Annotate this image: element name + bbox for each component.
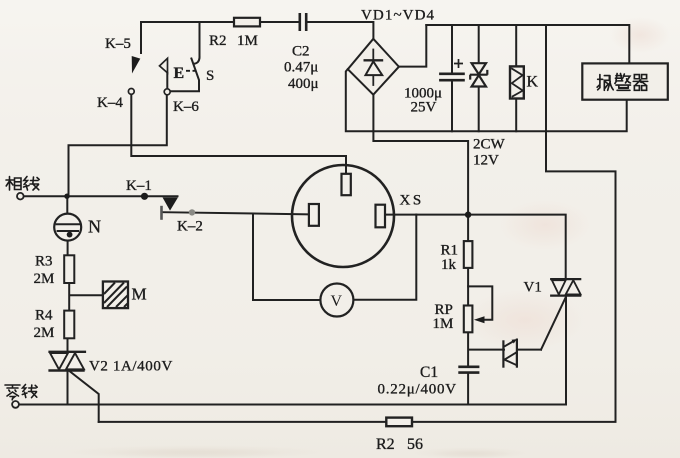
svg-text:N: N — [88, 217, 101, 237]
svg-text:2M: 2M — [34, 325, 55, 341]
svg-text:VD1~VD4: VD1~VD4 — [361, 8, 435, 24]
svg-text:K–4: K–4 — [97, 95, 123, 111]
svg-text:R2: R2 — [209, 33, 227, 49]
svg-text:K–5: K–5 — [105, 36, 131, 52]
svg-text:K–6: K–6 — [173, 99, 199, 115]
svg-text:V: V — [331, 293, 343, 310]
svg-text:V2 1A/400V: V2 1A/400V — [89, 359, 173, 375]
svg-text:R4: R4 — [35, 308, 53, 324]
svg-text:K–1: K–1 — [126, 178, 152, 194]
svg-text:56: 56 — [407, 436, 423, 453]
svg-text:25V: 25V — [411, 100, 437, 116]
svg-text:0.47μ: 0.47μ — [284, 60, 318, 76]
svg-text:K–2: K–2 — [177, 219, 203, 235]
svg-text:0.22μ/400V: 0.22μ/400V — [378, 382, 457, 398]
svg-text:K: K — [527, 74, 539, 91]
svg-text:2M: 2M — [34, 271, 55, 287]
svg-text:V1: V1 — [524, 280, 542, 296]
svg-text:M: M — [132, 285, 147, 304]
svg-text:C1: C1 — [420, 364, 438, 381]
svg-text:1M: 1M — [433, 316, 454, 332]
svg-text:400μ: 400μ — [288, 76, 319, 92]
svg-text:12V: 12V — [473, 153, 499, 169]
svg-text:R2: R2 — [376, 436, 395, 453]
svg-text:R3: R3 — [35, 254, 53, 270]
svg-text:C2: C2 — [292, 44, 310, 60]
svg-text:1k: 1k — [441, 257, 457, 273]
svg-text:2CW: 2CW — [473, 137, 506, 153]
svg-text:S: S — [206, 68, 214, 84]
svg-text:E: E — [174, 65, 185, 82]
svg-text:XS: XS — [400, 193, 424, 209]
svg-text:1M: 1M — [237, 33, 258, 49]
